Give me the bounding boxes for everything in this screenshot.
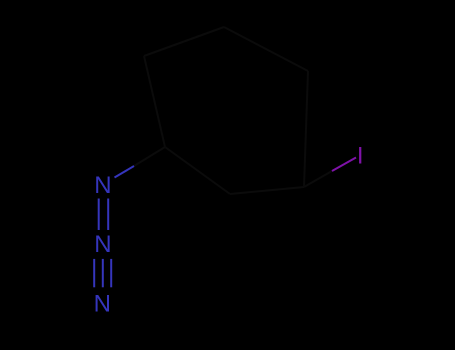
ring edge A-B (144, 56, 165, 147)
svg-text:N: N (94, 231, 111, 258)
N1=N2 double bond line 1 (98, 199, 100, 231)
svg-text:N: N (94, 291, 111, 318)
svg-text:N: N (94, 172, 111, 199)
ring edge Cr-F (230, 187, 304, 194)
bond Cr to I, iodine half (purple) (332, 158, 356, 172)
ring edge D-Cr (304, 71, 308, 187)
N2#N3 triple bond line 2 (102, 259, 104, 287)
N2#N3 triple bond line 1 (93, 259, 95, 287)
bond A to N1, nitrogen half (blue) (115, 166, 135, 178)
ring edge F-A (165, 147, 230, 194)
N2#N3 triple bond line 3 (110, 259, 112, 287)
svg-text:I: I (357, 142, 364, 169)
ring edge C-D (224, 27, 308, 71)
ring edge B-C (144, 27, 224, 56)
bond Cr to I, carbon half (black) (304, 171, 332, 187)
bond A to N1, carbon half (black) (134, 147, 165, 166)
N1=N2 double bond line 2 (107, 199, 109, 231)
